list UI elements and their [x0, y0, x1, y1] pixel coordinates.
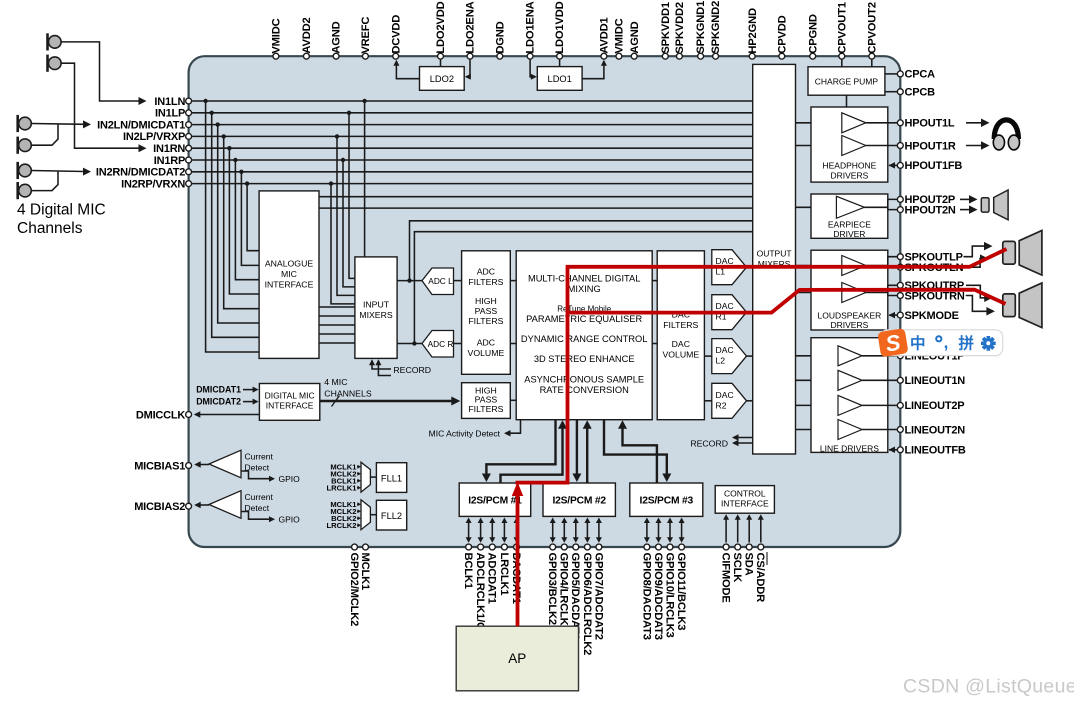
pin LDO1VDD (top) [557, 53, 563, 59]
feedback wire D [414, 232, 752, 344]
svg-text:MIC Activity Detect: MIC Activity Detect [429, 428, 501, 438]
svg-text:CSDN @ListQueue: CSDN @ListQueue [903, 676, 1074, 698]
I2S PCM interface 2 block [543, 483, 615, 516]
svg-text:IN1RP: IN1RP [154, 155, 185, 167]
red annotation: AP to DACDAT1 [516, 492, 520, 626]
svg-text:CONTROL: CONTROL [724, 489, 766, 499]
DAC L2 converter [712, 339, 747, 374]
pin VMIDC (top) [616, 53, 622, 59]
microphone M5 [16, 162, 19, 179]
svg-text:DAC: DAC [672, 339, 690, 349]
svg-text:CHANNELS: CHANNELS [324, 389, 372, 399]
MICBIAS1 GPIO wire [241, 471, 273, 479]
pin CPCB (right) [897, 89, 903, 95]
ADC L input wire [397, 280, 422, 282]
svg-text:DRIVERS: DRIVERS [831, 320, 869, 330]
svg-text:MIXING: MIXING [568, 284, 601, 294]
svg-text:HPOUT1R: HPOUT1R [905, 140, 956, 152]
junction C [407, 278, 411, 282]
digital mic interface block [259, 384, 319, 421]
ADC L converter [422, 268, 454, 295]
pin GPIO9/ADCDAT3 (bottom) [656, 544, 662, 550]
svg-text:FILTERS: FILTERS [663, 320, 698, 330]
svg-text:GPIO4/LRCLK2: GPIO4/LRCLK2 [558, 553, 570, 632]
pin DCVDD (top) [393, 53, 399, 59]
svg-text:RATE CONVERSION: RATE CONVERSION [540, 385, 629, 395]
svg-text:LINE DRIVERS: LINE DRIVERS [820, 444, 879, 454]
svg-text:4 MIC: 4 MIC [324, 377, 347, 387]
svg-text:LOUDSPEAKER: LOUDSPEAKER [818, 311, 882, 321]
pin GPIO3/BCLK2 (bottom) [550, 544, 556, 550]
headphones icon [994, 120, 1018, 139]
svg-text:拼: 拼 [959, 334, 975, 353]
MICBIAS2 current detect comparator [209, 491, 241, 519]
svg-text:CPGND: CPGND [807, 14, 819, 54]
I2S PCM interface 1 block [459, 483, 531, 516]
pin GPIO8/DACDAT3 (bottom) [644, 544, 650, 550]
pin GPIO6/ADCLRCLK2 (bottom) [584, 544, 590, 550]
svg-text:LRCLK1: LRCLK1 [327, 483, 358, 492]
sogou IME toolbar [877, 328, 1002, 357]
earpiece amp [836, 196, 864, 218]
earpiece speaker icon [981, 198, 989, 212]
svg-text:L2: L2 [716, 356, 726, 366]
svg-text:AVDD1: AVDD1 [599, 18, 611, 54]
svg-text:GPIO2/MCLK2: GPIO2/MCLK2 [348, 553, 360, 627]
HPOUT1R arrow [966, 145, 984, 147]
mixer feed wire B [319, 207, 753, 209]
record wires right [734, 437, 753, 439]
svg-text:DRIVERS: DRIVERS [831, 171, 869, 181]
FLL1 clock mux [361, 462, 370, 492]
svg-text:4 Digital MIC: 4 Digital MIC [17, 202, 106, 219]
svg-text:SPKGND2: SPKGND2 [710, 1, 722, 54]
M2 to IN1RN wire [61, 63, 140, 148]
line driver amp 2 [838, 370, 862, 390]
ADC R input wire [397, 343, 422, 345]
svg-text:RECORD: RECORD [690, 439, 728, 449]
CPVOUT2 wire [871, 59, 873, 66]
svg-text:LDO2VDD: LDO2VDD [435, 1, 447, 53]
pin LDO1ENA (top) [527, 53, 533, 59]
svg-text:IN1LN: IN1LN [154, 96, 185, 108]
input mixers top feed wire [364, 101, 366, 257]
microphone M2 [46, 55, 49, 72]
pin GPIO5/DACDAT2 (bottom) [573, 544, 579, 550]
digital mic high pass filters block [462, 383, 511, 419]
svg-text:IN1RN: IN1RN [153, 143, 185, 155]
svg-text:VOLUME: VOLUME [468, 348, 505, 358]
svg-text:GPIO: GPIO [279, 515, 301, 525]
DSP to I2S3 wire [604, 420, 667, 477]
svg-text:MICBIAS1: MICBIAS1 [134, 460, 185, 472]
svg-text:DRIVER: DRIVER [833, 229, 865, 239]
pin GPIO2/MCLK2 (bottom) [352, 544, 358, 550]
I2S pin wires [468, 522, 470, 540]
M6 join wire [32, 172, 59, 191]
analogue mic interface input wires [206, 101, 260, 352]
pin DMICCLK (left) [186, 412, 192, 418]
ADC filters to DSP wires [510, 280, 516, 282]
pin CPCA (right) [897, 71, 903, 77]
SPKOUTRP arrow [966, 285, 987, 298]
svg-text:MULTI-CHANNEL DIGITAL: MULTI-CHANNEL DIGITAL [528, 274, 640, 284]
svg-text:SDA: SDA [743, 553, 755, 576]
svg-text:CPCB: CPCB [905, 87, 936, 99]
pin LINEOUT2N (right) [897, 427, 903, 433]
svg-text:DYNAMIC RANGE CONTROL: DYNAMIC RANGE CONTROL [521, 334, 648, 344]
svg-text:CHARGE PUMP: CHARGE PUMP [815, 77, 879, 87]
pin BCLK1 (bottom) [466, 544, 472, 550]
headphone amp L [842, 113, 866, 133]
pin SPKOUTRP (right) [897, 282, 903, 288]
pin IN2LN/DMICDAT1 (left) [186, 122, 192, 128]
HPOUT2P arrow [960, 198, 972, 200]
SPKMODE wire [889, 314, 900, 316]
LDO2 output wire to DCVDD [396, 62, 419, 79]
pin MICBIAS1 (left) [186, 463, 192, 469]
svg-text:VREFC: VREFC [360, 17, 372, 54]
pin IN2RP/VRXN (left) [186, 181, 192, 187]
svg-text:DAC: DAC [716, 345, 734, 355]
pin HPOUT1L (right) [897, 120, 903, 126]
svg-text:LINEOUT1N: LINEOUT1N [905, 375, 966, 387]
svg-text:AVDD2: AVDD2 [301, 18, 313, 54]
svg-text:IN2RP/VRXN: IN2RP/VRXN [121, 178, 185, 190]
svg-text:AGND: AGND [331, 21, 343, 53]
pin SPKOUTLN (right) [897, 264, 903, 270]
svg-text:I2S/PCM #1: I2S/PCM #1 [468, 496, 522, 507]
svg-text:ADC: ADC [477, 267, 495, 277]
pin AVDD1 (top) [601, 53, 607, 59]
svg-text:INPUT: INPUT [363, 300, 390, 310]
pin ADCDAT1 (bottom) [489, 544, 495, 550]
svg-text:DGND: DGND [494, 21, 506, 53]
pin IN1RP (left) [186, 157, 192, 163]
MICBIAS1 current detect comparator [209, 450, 241, 478]
svg-text:ASYNCHRONOUS SAMPLE: ASYNCHRONOUS SAMPLE [524, 375, 644, 385]
pin MICBIAS2 (left) [186, 503, 192, 509]
pin LINEOUT1N (right) [897, 377, 903, 383]
svg-text:ADCDAT1: ADCDAT1 [486, 553, 498, 604]
svg-text:HPOUT2N: HPOUT2N [905, 204, 956, 216]
LDO1VDD wire [559, 59, 561, 66]
svg-text:GPIO9/ADCDAT3: GPIO9/ADCDAT3 [652, 553, 664, 640]
pin IN2RN/DMICDAT2 (left) [186, 169, 192, 175]
pin LINEOUT2P (right) [897, 402, 903, 408]
pin HPOUT1FB (right) [897, 162, 903, 168]
svg-text:SPKOUTRN: SPKOUTRN [905, 290, 965, 302]
svg-text:SPKMODE: SPKMODE [905, 310, 959, 322]
CPCA wire [885, 73, 900, 75]
pin HPOUT2P (right) [897, 196, 903, 202]
M1 to IN1LN wire [61, 42, 140, 101]
svg-text:GPIO8/DACDAT3: GPIO8/DACDAT3 [640, 553, 652, 640]
svg-text:FILTERS: FILTERS [468, 277, 503, 287]
pin CPVOUT2 (top) [869, 53, 875, 59]
pin AGND (top) [333, 53, 339, 59]
svg-text:R2: R2 [716, 400, 727, 410]
pin IN1LP (left) [186, 110, 192, 116]
charge pump to headphone drivers wire [846, 95, 848, 107]
svg-text:VOLUME: VOLUME [662, 349, 699, 359]
input mixers block [355, 257, 397, 359]
earpiece driver block [811, 194, 888, 238]
M5 to IN2RN wire [32, 171, 85, 172]
pin IN2LP/VRXP (left) [186, 133, 192, 139]
svg-text:AP: AP [508, 651, 526, 666]
pin GPIO11/BCLK3 (bottom) [679, 544, 685, 550]
DAC R2 converter [712, 383, 747, 418]
output mixer to headphone driver wires [796, 122, 842, 124]
pin SDA (bottom) [746, 544, 752, 550]
analogue mic interface block [259, 191, 319, 359]
LDO2ENA wire [467, 59, 471, 76]
svg-text:OUTPUT: OUTPUT [757, 249, 792, 259]
svg-text:INTERFACE: INTERFACE [721, 499, 769, 509]
svg-text:EARPIECE: EARPIECE [828, 220, 871, 230]
LINEOUTFB wire [889, 449, 900, 451]
control interface pin wires [725, 518, 727, 543]
HPF to DSP wire [510, 399, 516, 401]
svg-text:HPOUT1FB: HPOUT1FB [905, 160, 963, 172]
pin SPKOUTLP (right) [897, 254, 903, 260]
svg-text:,: , [944, 333, 949, 352]
DSP to DAC filters wires [652, 280, 657, 282]
pin GPIO7/ADCDAT2 (bottom) [596, 544, 602, 550]
I2S PCM interface 3 block [630, 483, 703, 516]
svg-text:LINEOUTFB: LINEOUTFB [905, 445, 966, 457]
microphone M4 [16, 137, 19, 154]
svg-text:VMIDC: VMIDC [614, 18, 626, 53]
DAC filters to DAC wires [704, 266, 711, 268]
svg-text:LDO2: LDO2 [430, 74, 454, 84]
svg-text:VMIDC: VMIDC [271, 18, 283, 53]
svg-text:PASS: PASS [475, 306, 498, 316]
pin SPKGND1 (top) [698, 53, 704, 59]
AP application processor box [456, 626, 578, 691]
line drivers block [811, 338, 888, 453]
ADC L output wire [454, 280, 462, 282]
svg-text:CPVDD: CPVDD [776, 15, 788, 53]
svg-text:MICBIAS2: MICBIAS2 [134, 501, 185, 513]
svg-text:GPIO: GPIO [279, 474, 301, 484]
svg-text:DMICDAT2: DMICDAT2 [196, 397, 241, 407]
svg-text:DCVDD: DCVDD [390, 15, 402, 54]
svg-text:ADC R: ADC R [428, 339, 454, 349]
charge pump block [808, 67, 885, 95]
LDO1 regulator [537, 67, 582, 91]
svg-text:CPVOUT1: CPVOUT1 [836, 2, 848, 53]
line driver amp 1 [838, 346, 862, 366]
svg-text:HEADPHONE: HEADPHONE [822, 161, 876, 171]
svg-text:CPVOUT2: CPVOUT2 [866, 2, 878, 53]
LDO2VDD wire [440, 59, 442, 66]
FLL2 clock mux [361, 500, 370, 530]
input signal bus wires (IN1LN..IN2RP) [191, 100, 753, 102]
svg-text:DAC: DAC [716, 256, 734, 266]
svg-text:FLL1: FLL1 [381, 474, 402, 484]
M3 to IN2LN wire [32, 123, 85, 126]
DSP block [516, 251, 652, 420]
ADC filters block [462, 251, 511, 374]
MIC activity detect wire [507, 420, 521, 434]
HPOUT1FB wire [889, 164, 900, 166]
svg-text:Current: Current [245, 452, 274, 462]
CPCB wire [885, 91, 900, 93]
pin SPKVDD2 (top) [676, 53, 682, 59]
pin LRCLK1 (bottom) [501, 544, 507, 550]
pin CPGND (top) [810, 53, 816, 59]
svg-text:DIGITAL MIC: DIGITAL MIC [265, 391, 315, 401]
control interface block [715, 486, 774, 514]
left loudspeaker icon [1003, 241, 1016, 264]
svg-text:FLL2: FLL2 [381, 511, 402, 521]
svg-text:SCLK: SCLK [731, 553, 743, 583]
feedback wire C [410, 221, 753, 281]
ADC R output wire [454, 343, 462, 345]
M4 join wire [32, 124, 59, 145]
DAC R1 converter [712, 295, 747, 330]
svg-text:FILTERS: FILTERS [468, 316, 503, 326]
svg-text:MIXERS: MIXERS [359, 310, 393, 320]
SPKOUTLP arrow [964, 246, 988, 257]
svg-text:CPCA: CPCA [905, 69, 936, 81]
record wires left [372, 361, 391, 370]
svg-text:LDO1: LDO1 [548, 74, 572, 84]
pin HPOUT2N (right) [897, 207, 903, 213]
pin CIFMODE (bottom) [723, 544, 729, 550]
output mixer to loudspeaker driver wires [796, 265, 842, 267]
microphone M6 [16, 182, 19, 199]
svg-text:CIFMODE: CIFMODE [720, 553, 732, 604]
pin HPOUT1R (right) [897, 143, 903, 149]
pin GPIO4/LRCLK2 (bottom) [561, 544, 567, 550]
svg-text:HPOUT1L: HPOUT1L [905, 118, 955, 130]
SPKOUTLN arrow [965, 259, 984, 268]
I2S3 to DSP wire [623, 426, 657, 484]
svg-text:FILTERS: FILTERS [468, 404, 503, 414]
pin SPKVDD1 (top) [662, 53, 668, 59]
headphone drivers block [811, 107, 888, 182]
line driver amp 4 [838, 420, 862, 440]
codec chip body U1 [189, 56, 901, 547]
LDO2 regulator [420, 67, 465, 91]
microphone M3 [16, 115, 19, 132]
MICBIAS2 GPIO wire [241, 512, 273, 520]
svg-text:DAC: DAC [716, 390, 734, 400]
svg-text:中: 中 [910, 334, 926, 353]
input mixers input wires [349, 113, 355, 279]
output mixer to earpiece driver wire [796, 206, 837, 208]
DAC to output mixers wires [747, 266, 753, 268]
svg-text:HP2GND: HP2GND [747, 8, 759, 54]
pin LINEOUT1P (right) [897, 353, 903, 359]
pin AVDD2 (top) [303, 53, 309, 59]
pin VMIDC (top) [273, 53, 279, 59]
svg-text:3D STEREO ENHANCE: 3D STEREO ENHANCE [534, 354, 635, 364]
headphone amp R [842, 136, 866, 156]
red annotation: DAC R1 branch to right speaker [568, 290, 1006, 313]
ADC R converter [422, 331, 454, 358]
pin CPVOUT1 (top) [839, 53, 845, 59]
HPOUT2N arrow [960, 209, 972, 211]
microphone M1 [46, 33, 49, 50]
svg-text:DMICDAT1: DMICDAT1 [196, 385, 241, 395]
svg-text:GPIO6/ADCLRCLK2: GPIO6/ADCLRCLK2 [581, 553, 593, 656]
svg-text:GPIO10/LRCLK3: GPIO10/LRCLK3 [663, 553, 675, 638]
svg-text:DAC: DAC [716, 301, 734, 311]
svg-text:GPIO11/BCLK3: GPIO11/BCLK3 [675, 553, 687, 631]
I2S1 to DSP wire [501, 426, 563, 484]
svg-text:LDO1VDD: LDO1VDD [554, 1, 566, 53]
svg-text:Channels: Channels [17, 220, 83, 237]
DAC L1 converter [712, 250, 747, 285]
red annotation: I2S1 to DAC L1 to left speaker [516, 249, 1007, 483]
svg-text:IN1LP: IN1LP [155, 108, 185, 120]
svg-text:MCLK1: MCLK1 [359, 553, 371, 591]
HPOUT1L arrow [966, 122, 984, 124]
svg-text:HIGH: HIGH [475, 296, 497, 306]
output mixer to line driver wires [796, 355, 839, 357]
svg-text:SPKGND1: SPKGND1 [695, 1, 707, 54]
pin DGND (top) [497, 53, 503, 59]
LDO1ENA wire [530, 59, 535, 76]
svg-text:LDO2ENA: LDO2ENA [465, 1, 477, 53]
pin VREFC (top) [362, 53, 368, 59]
pin DACDAT1 (bottom) [514, 544, 520, 550]
svg-text:LDO1ENA: LDO1ENA [525, 1, 537, 53]
svg-text:GPIO3/BCLK2: GPIO3/BCLK2 [546, 553, 558, 625]
analogue mic to input mixer wires [319, 306, 355, 308]
line driver amp 3 [838, 395, 862, 415]
svg-text:DMICCLK: DMICCLK [136, 409, 186, 421]
I2S2 to DSP wire [586, 426, 588, 484]
SPKOUTRN arrow [966, 296, 990, 312]
pin MCLK1 (bottom) [363, 544, 369, 550]
svg-text:ADC L: ADC L [428, 276, 453, 286]
svg-text:BCLK1: BCLK1 [462, 553, 474, 589]
pin SPKMODE (right) [897, 312, 903, 318]
pin AGND (top) [631, 53, 637, 59]
svg-text:GPIO7/ADCDAT2: GPIO7/ADCDAT2 [592, 553, 604, 640]
svg-text:ANALOGUE: ANALOGUE [265, 259, 313, 269]
DMICCLK wire [195, 414, 259, 416]
svg-text:MIC: MIC [281, 269, 297, 279]
4 MIC CHANNELS bus [320, 400, 453, 403]
LDO1 output wire to AVDD1 [582, 62, 604, 79]
junction D [412, 341, 416, 345]
pin SCLK (bottom) [735, 544, 741, 550]
svg-text:LRCLK2: LRCLK2 [327, 521, 357, 530]
svg-text:PARAMETRIC EQUALISER: PARAMETRIC EQUALISER [526, 314, 642, 324]
pin GPIO10/LRCLK3 (bottom) [667, 544, 673, 550]
pin LDO2VDD (top) [438, 53, 444, 59]
svg-text:Current: Current [245, 492, 274, 502]
FLL2 block [376, 500, 406, 530]
DAC filters block [657, 251, 704, 420]
svg-text:IN2LP/VRXP: IN2LP/VRXP [123, 131, 185, 143]
pin HP2GND (top) [749, 53, 755, 59]
loudspeaker amp R [842, 283, 866, 303]
mixer feed wire A [319, 196, 753, 198]
svg-text:RECORD: RECORD [393, 365, 431, 375]
pin CPVDD (top) [779, 53, 785, 59]
svg-text:CS/ADDR: CS/ADDR [754, 553, 766, 603]
svg-text:LINEOUT2P: LINEOUT2P [905, 400, 965, 412]
svg-text:ADC: ADC [477, 338, 495, 348]
pin IN1RN (left) [186, 145, 192, 151]
